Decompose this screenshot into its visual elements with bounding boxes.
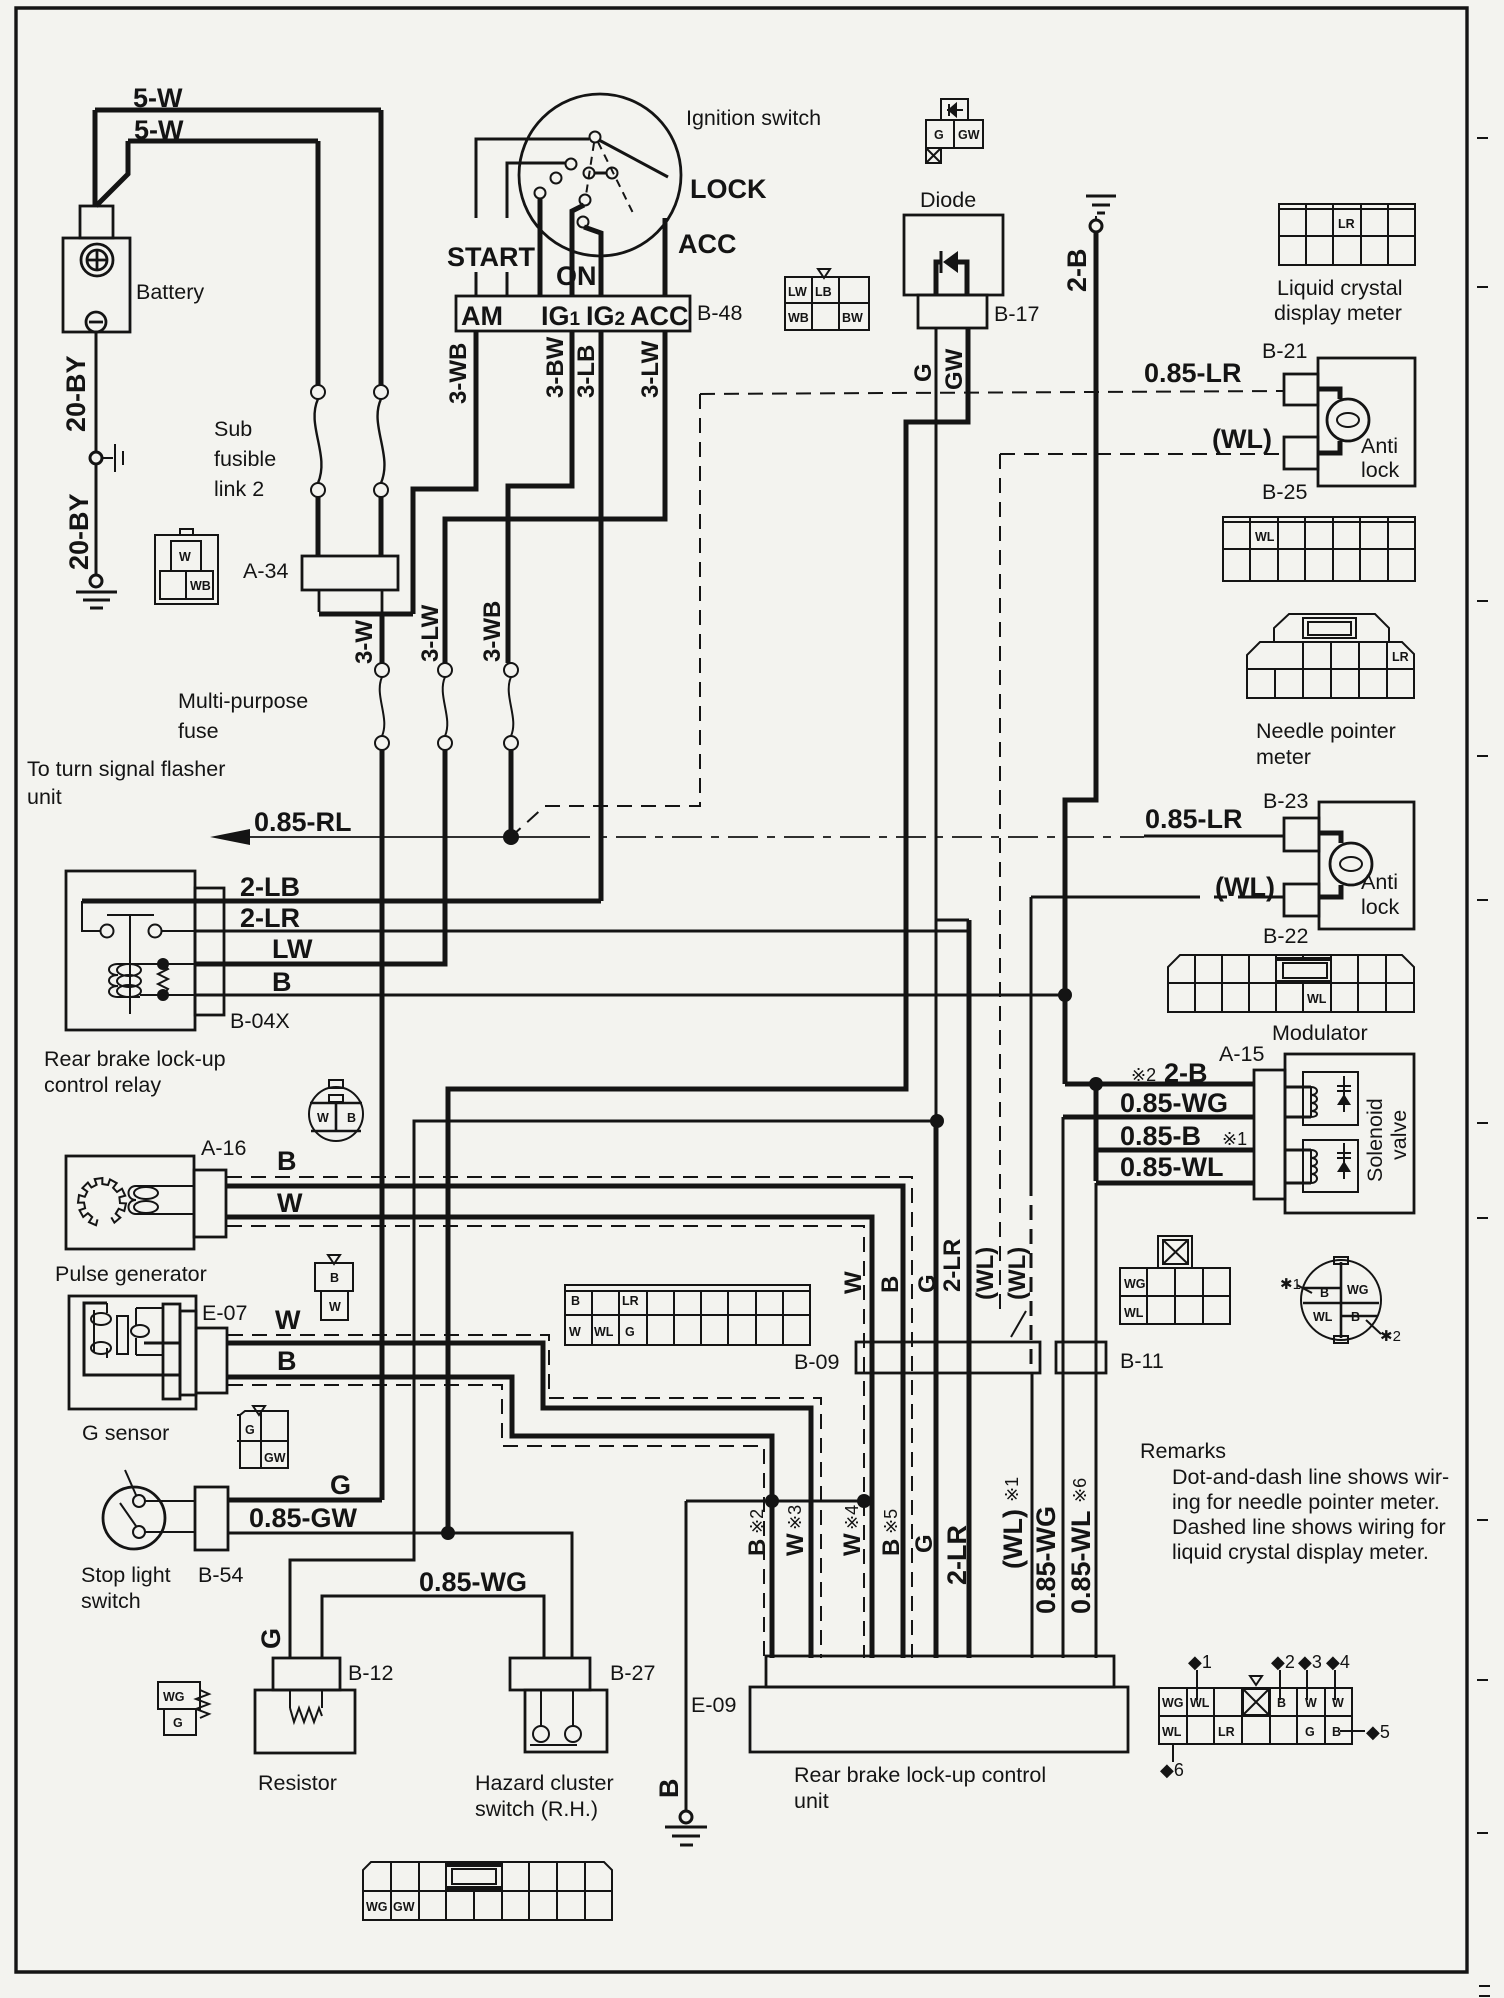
relay internal wiring <box>82 901 195 1014</box>
ground symbol battery <box>76 592 117 608</box>
wire 5-W lower <box>128 139 318 144</box>
svg-text:B-11: B-11 <box>1120 1349 1164 1373</box>
connector B-04X bar <box>195 888 224 1015</box>
svg-text:fuse: fuse <box>178 719 219 743</box>
svg-text:W: W <box>839 1533 866 1556</box>
svg-text:(WL): (WL) <box>998 1509 1028 1569</box>
svg-text:W: W <box>329 1300 341 1314</box>
wire 3-WB to junction <box>509 750 514 837</box>
svg-text:B: B <box>347 1111 356 1125</box>
svg-text:Rear brake lock-up: Rear brake lock-up <box>44 1047 226 1071</box>
wire 3-LW below B-48 <box>445 331 665 663</box>
svg-text:A-34: A-34 <box>243 559 288 583</box>
svg-text:Liquid crystal: Liquid crystal <box>1277 276 1402 300</box>
junction 2-B <box>1089 1077 1103 1091</box>
svg-text:display meter: display meter <box>1274 301 1402 325</box>
wire B G sensor dashed companion <box>228 1385 764 1658</box>
svg-text:0.85-GW: 0.85-GW <box>249 1503 358 1533</box>
hazard switch contacts <box>530 1690 577 1745</box>
connector E-07 bar <box>196 1328 227 1393</box>
connector grid B/LR/W/WL/G <box>565 1285 810 1345</box>
wire B pulse <box>226 1186 903 1658</box>
connector A-15 bar <box>1254 1070 1285 1199</box>
chassis ground tick <box>103 444 123 472</box>
svg-text:G: G <box>1305 1725 1315 1739</box>
wire W pulse <box>226 1217 872 1658</box>
wire ON lead <box>538 198 543 296</box>
svg-text:0.85-WL: 0.85-WL <box>1120 1152 1224 1182</box>
svg-text:B: B <box>1332 1725 1341 1739</box>
svg-text:ON: ON <box>556 261 597 291</box>
svg-text:Rear brake lock-up control: Rear brake lock-up control <box>794 1763 1046 1787</box>
svg-text:Stop light: Stop light <box>81 1563 171 1587</box>
svg-text:◆1: ◆1 <box>1188 1652 1212 1672</box>
wire 3-W <box>380 614 385 663</box>
svg-text:3-LW: 3-LW <box>637 340 664 398</box>
svg-text:link 2: link 2 <box>214 477 264 501</box>
wire GW from diode <box>448 328 968 1533</box>
wire 0.85-WG B-12 to B-27 <box>322 1596 544 1658</box>
svg-text:WB: WB <box>788 311 809 325</box>
svg-text:WL: WL <box>1162 1725 1182 1739</box>
svg-text:3-WB: 3-WB <box>479 601 506 662</box>
connector needle pointer meter <box>1247 614 1414 698</box>
svg-text:LW: LW <box>788 285 807 299</box>
svg-text:B: B <box>330 1271 339 1285</box>
connector B-11 bar <box>1056 1342 1106 1373</box>
wire 0.85-WG vertical <box>1062 1117 1065 1658</box>
svg-text:LOCK: LOCK <box>690 174 767 204</box>
solenoid coil 1 <box>1285 1072 1358 1125</box>
svg-text:2-B: 2-B <box>1062 248 1092 292</box>
svg-text:0.85-WG: 0.85-WG <box>1031 1506 1061 1614</box>
ignition rotor arm solid <box>594 140 668 177</box>
wire 3-WB below B-48 <box>413 331 476 614</box>
svg-text:W: W <box>1332 1696 1344 1710</box>
svg-text:liquid crystal display meter.: liquid crystal display meter. <box>1172 1540 1429 1564</box>
relay resistor leg <box>157 958 169 970</box>
wire ignition AM lead <box>476 139 589 218</box>
svg-text:3-W: 3-W <box>351 620 378 664</box>
diode symbol <box>936 262 967 295</box>
svg-text:3-LW: 3-LW <box>417 604 444 662</box>
connector joint 2-B <box>1090 220 1102 232</box>
right margin tick marks <box>1477 138 1490 1996</box>
svg-text:◆6: ◆6 <box>1160 1760 1184 1780</box>
solenoid coil 2 <box>1285 1140 1358 1192</box>
wire 2-B vertical <box>1065 232 1096 1084</box>
svg-text:0.85-WG: 0.85-WG <box>1120 1088 1228 1118</box>
wire 3-LB below B-48 <box>599 331 604 901</box>
connector grid bottom WG/GW <box>363 1862 612 1920</box>
junction B to 2-B <box>1058 988 1072 1002</box>
svg-text:WL: WL <box>1313 1310 1333 1324</box>
wire links to A-34 <box>318 497 381 556</box>
svg-text:WB: WB <box>190 579 211 593</box>
wire to fusible link right <box>379 110 384 385</box>
svg-text:fusible: fusible <box>214 447 276 471</box>
svg-text:WL: WL <box>1124 1306 1144 1320</box>
svg-text:WL: WL <box>1255 530 1275 544</box>
rear brake lock-up control relay box <box>66 871 195 1030</box>
svg-text:◆2: ◆2 <box>1271 1652 1295 1672</box>
svg-text:AM: AM <box>461 301 503 331</box>
wire 5-W upper <box>95 108 381 113</box>
svg-text:B: B <box>277 1346 297 1376</box>
svg-text:◆3: ◆3 <box>1298 1652 1322 1672</box>
svg-text:A-15: A-15 <box>1219 1042 1264 1066</box>
junction end dot <box>857 1494 871 1508</box>
wire 20-BY battery negative <box>95 332 98 453</box>
pointer tick WL <box>1011 1311 1026 1337</box>
connector pin B-25 <box>1284 437 1318 469</box>
svg-text:Anti: Anti <box>1361 870 1398 894</box>
wire GW branch jog <box>936 919 969 922</box>
battery B1 <box>63 206 130 332</box>
svg-text:B-21: B-21 <box>1262 339 1307 363</box>
svg-text:W: W <box>569 1325 581 1339</box>
svg-text:※5: ※5 <box>881 1509 901 1534</box>
fuse 3-WB <box>504 663 518 750</box>
pulse generator gear <box>78 1178 126 1225</box>
ignition switch housing circle <box>519 94 681 256</box>
svg-text:E-07: E-07 <box>202 1301 247 1325</box>
wire dashed WL vertical <box>999 454 1001 1310</box>
ignition switch contacts <box>535 132 618 228</box>
wire 3-W long vertical to stop light G <box>380 750 385 1500</box>
control unit box <box>750 1687 1128 1752</box>
connector icon LW/LB/WB/BW <box>785 269 869 330</box>
wire E-09 branch <box>686 1500 866 1503</box>
svg-text:ACC: ACC <box>678 229 737 259</box>
control unit connector bar <box>766 1656 1114 1687</box>
ground symbol 2-B top <box>1086 196 1116 213</box>
wire 0.85-WL vertical <box>1095 1183 1098 1658</box>
svg-text:B-09: B-09 <box>794 1350 839 1374</box>
svg-text:LR: LR <box>1392 650 1409 664</box>
wire G from diode <box>935 328 938 1121</box>
connector grid LCD meter <box>1279 204 1415 265</box>
wire 0.85-WL to A-15 <box>1096 1181 1254 1186</box>
wire 0.85-LR solid to B-23 <box>1144 835 1284 838</box>
svg-text:G: G <box>934 128 944 142</box>
stop light switch <box>103 1487 165 1549</box>
connector round W/B <box>309 1080 363 1141</box>
svg-text:◆5: ◆5 <box>1366 1722 1390 1742</box>
wire G stop light <box>228 1498 382 1503</box>
svg-text:2-LR: 2-LR <box>939 1239 966 1292</box>
connector B-27 <box>510 1658 590 1690</box>
svg-text:Multi-purpose: Multi-purpose <box>178 689 308 713</box>
svg-text:WG: WG <box>366 1900 388 1914</box>
wire 0.85-RL with arrow <box>228 836 560 838</box>
svg-text:0.85-LR: 0.85-LR <box>1145 804 1243 834</box>
svg-text:GW: GW <box>264 1451 286 1465</box>
bulb anti lock 1 <box>1318 389 1340 453</box>
fusible link 1 <box>311 385 325 497</box>
diode D1 box <box>904 215 1003 295</box>
svg-text:20-BY: 20-BY <box>61 355 91 432</box>
svg-text:GW: GW <box>958 128 980 142</box>
svg-text:B-22: B-22 <box>1263 924 1308 948</box>
wire B relay <box>195 994 1065 997</box>
wire IG2 lead <box>584 227 601 296</box>
svg-text:G: G <box>911 1534 938 1553</box>
wire battery positive lead <box>95 110 128 207</box>
wire ACC lead <box>663 218 668 296</box>
fusible link 2 <box>374 385 388 497</box>
junction E-09 to B*2 <box>765 1494 779 1508</box>
connector icon WG/G with resistor <box>158 1682 209 1735</box>
svg-text:WG: WG <box>1162 1696 1184 1710</box>
svg-text:✱2: ✱2 <box>1380 1328 1401 1345</box>
svg-text:5-W: 5-W <box>134 115 184 145</box>
svg-text:W: W <box>317 1111 329 1125</box>
svg-text:B-25: B-25 <box>1262 480 1307 504</box>
G sensor connector bars <box>163 1304 180 1399</box>
svg-text:(WL): (WL) <box>1004 1247 1031 1300</box>
svg-text:B: B <box>877 1276 904 1293</box>
svg-text:G: G <box>625 1325 635 1339</box>
connector A-16 bar <box>194 1170 226 1237</box>
connector grid modulator <box>1168 955 1414 1012</box>
wire dash-dot needle pointer meter line <box>560 836 1144 838</box>
svg-text:G: G <box>173 1716 183 1730</box>
svg-text:B: B <box>1320 1286 1329 1300</box>
svg-text:(WL): (WL) <box>1212 424 1272 454</box>
svg-text:IG2: IG2 <box>586 301 625 331</box>
svg-text:2-LR: 2-LR <box>240 903 300 933</box>
svg-text:To turn signal flasher: To turn signal flasher <box>27 757 225 781</box>
svg-text:※1: ※1 <box>1002 1477 1022 1502</box>
svg-text:G: G <box>330 1470 351 1500</box>
svg-text:※6: ※6 <box>1070 1478 1090 1503</box>
svg-text:LW: LW <box>272 934 313 964</box>
connector grid WG/WL with X box <box>1120 1236 1230 1324</box>
svg-text:B: B <box>654 1779 684 1799</box>
connector B-48 <box>456 296 690 331</box>
svg-text:Dot-and-dash line shows wir-: Dot-and-dash line shows wir- <box>1172 1465 1449 1489</box>
svg-text:G sensor: G sensor <box>82 1421 169 1445</box>
relay coil <box>109 964 140 997</box>
connector B-12 <box>273 1658 340 1690</box>
pulse generator coil <box>129 1186 195 1214</box>
wire 2-B to A-15 <box>1065 1082 1254 1087</box>
connector icon G/GW with diode <box>926 99 983 163</box>
hazard cluster switch box <box>525 1690 607 1752</box>
wire B pulse dashed companion <box>227 1177 912 1658</box>
svg-text:Hazard cluster: Hazard cluster <box>475 1771 614 1795</box>
bulb anti lock 2 <box>1319 833 1341 897</box>
wire 3-BW below B-48 <box>508 331 572 663</box>
svg-text:unit: unit <box>27 785 62 809</box>
wire 0.85-B to A-15 <box>1096 1148 1254 1153</box>
wire WL B-22 <box>1031 896 1284 899</box>
wire 20-BY lower <box>95 464 98 575</box>
svg-text:(WL): (WL) <box>972 1247 999 1300</box>
G sensor internals <box>84 1303 180 1375</box>
svg-text:W: W <box>179 550 191 564</box>
svg-text:switch: switch <box>81 1589 141 1613</box>
wire LW <box>195 750 445 964</box>
svg-text:GW: GW <box>941 348 968 390</box>
connector icon W/WB <box>155 529 218 604</box>
svg-text:3-WB: 3-WB <box>445 343 472 404</box>
svg-text:B-23: B-23 <box>1263 789 1308 813</box>
connector round 4-pin <box>1301 1257 1381 1343</box>
fuse 3-LW <box>438 663 452 750</box>
svg-text:W: W <box>840 1271 867 1294</box>
connector pin B-23 <box>1284 818 1319 851</box>
wire WL1 vertical <box>1030 897 1033 1181</box>
svg-text:B-17: B-17 <box>994 302 1039 326</box>
svg-text:2-LB: 2-LB <box>240 872 300 902</box>
svg-text:lock: lock <box>1361 458 1399 482</box>
svg-text:0.85-WL: 0.85-WL <box>1066 1510 1096 1614</box>
wire dashed LCD WL to B-25 <box>1000 453 1284 455</box>
svg-text:GW: GW <box>393 1900 415 1914</box>
wire G branch to B-12 <box>290 1121 937 1658</box>
wire A-34 bottom bar <box>319 612 413 617</box>
svg-text:Ignition switch: Ignition switch <box>686 106 821 130</box>
anti lock unit 2 box <box>1319 802 1414 929</box>
svg-text:IG1: IG1 <box>541 301 581 331</box>
svg-text:Needle pointer: Needle pointer <box>1256 719 1396 743</box>
svg-text:WL: WL <box>1307 992 1327 1006</box>
svg-text:W: W <box>275 1305 301 1335</box>
svg-text:A-16: A-16 <box>201 1136 246 1160</box>
svg-text:BW: BW <box>842 311 863 325</box>
connector icon B/W <box>315 1255 353 1320</box>
connector B-09 bar <box>856 1342 1040 1373</box>
svg-text:LB: LB <box>815 285 832 299</box>
svg-text:※1: ※1 <box>1222 1129 1247 1149</box>
connector A-34 <box>302 556 398 612</box>
resistor box <box>255 1690 355 1753</box>
svg-text:Modulator: Modulator <box>1272 1021 1368 1045</box>
wire W G sensor <box>227 1343 811 1658</box>
junction 0.85-GW GW <box>441 1526 455 1540</box>
ground symbol E-09 <box>665 1827 707 1845</box>
connector grid diamond pins <box>1159 1676 1352 1744</box>
svg-text:Diode: Diode <box>920 188 976 212</box>
svg-text:E-09: E-09 <box>691 1693 736 1717</box>
svg-text:Sub: Sub <box>214 417 252 441</box>
wire dashed LCD 0.85-LR drop <box>513 394 700 835</box>
svg-text:B: B <box>571 1294 580 1308</box>
svg-text:lock: lock <box>1361 895 1399 919</box>
wire B G sensor <box>227 1377 772 1658</box>
svg-text:B: B <box>272 967 292 997</box>
anti lock unit 1 box <box>1318 358 1415 486</box>
connector joint E-09 ground <box>680 1811 692 1823</box>
svg-text:0.85-B: 0.85-B <box>1120 1121 1201 1151</box>
svg-text:B: B <box>277 1146 297 1176</box>
connector pin B-22 <box>1284 884 1319 916</box>
svg-text:G: G <box>914 1274 941 1293</box>
svg-text:※4: ※4 <box>842 1505 862 1530</box>
svg-text:B-04X: B-04X <box>230 1009 290 1033</box>
wire dashed LCD 0.85-LR <box>700 391 1284 394</box>
wire W G sensor dashed companion <box>228 1335 821 1658</box>
wire 2-LB <box>82 899 601 904</box>
svg-text:5-W: 5-W <box>133 83 183 113</box>
G sensor box <box>69 1296 196 1409</box>
svg-text:0.85-LR: 0.85-LR <box>1144 358 1242 388</box>
connector B-54 <box>195 1487 228 1550</box>
svg-text:3-BW: 3-BW <box>542 336 569 398</box>
wire 2-LR down to B-09 <box>967 920 972 1658</box>
svg-text:WG: WG <box>1347 1283 1369 1297</box>
connector grid WL meter <box>1223 517 1415 581</box>
wire to fusible link left <box>316 141 321 385</box>
svg-text:Battery: Battery <box>136 280 204 304</box>
svg-text:G: G <box>245 1423 255 1437</box>
ignition rotor dashed positions <box>586 142 633 213</box>
svg-text:0.85-RL: 0.85-RL <box>254 807 352 837</box>
svg-text:LR: LR <box>1338 217 1355 231</box>
svg-text:switch (R.H.): switch (R.H.) <box>475 1797 598 1821</box>
junction 0.85-RL <box>503 829 519 845</box>
svg-text:LR: LR <box>622 1294 639 1308</box>
svg-text:Pulse generator: Pulse generator <box>55 1262 207 1286</box>
connector joint ground end <box>90 575 102 587</box>
svg-text:2-LR: 2-LR <box>942 1525 972 1585</box>
svg-text:meter: meter <box>1256 745 1311 769</box>
svg-text:Remarks: Remarks <box>1140 1439 1226 1463</box>
wire 0.85-WG to A-15 <box>1063 1115 1254 1120</box>
svg-text:G: G <box>256 1628 286 1649</box>
wire ignition second lead <box>507 163 566 218</box>
svg-text:control relay: control relay <box>44 1073 161 1097</box>
junction G diode branch <box>930 1114 944 1128</box>
svg-text:W: W <box>782 1533 809 1556</box>
svg-text:B-12: B-12 <box>348 1661 393 1685</box>
svg-text:B-27: B-27 <box>610 1661 655 1685</box>
connector pin B-21 <box>1284 374 1318 405</box>
wire 0.85-B vertical tap <box>1094 1084 1099 1181</box>
svg-text:Anti: Anti <box>1361 434 1398 458</box>
wire 2-LR <box>195 930 969 933</box>
svg-text:WL: WL <box>1190 1696 1210 1710</box>
svg-text:B-48: B-48 <box>697 301 742 325</box>
wire START stub <box>475 272 478 296</box>
wire E-09 ground lead <box>685 1501 688 1811</box>
wire 0.85-GW <box>228 1533 572 1658</box>
svg-text:B: B <box>1351 1310 1360 1324</box>
svg-text:0.85-WG: 0.85-WG <box>419 1567 527 1597</box>
svg-text:W: W <box>277 1188 303 1218</box>
svg-text:B: B <box>1277 1696 1286 1710</box>
svg-text:valve: valve <box>1387 1110 1411 1160</box>
svg-text:Dashed line shows wiring for: Dashed line shows wiring for <box>1172 1515 1446 1539</box>
connector B-17 <box>918 295 987 328</box>
svg-text:Resistor: Resistor <box>258 1771 337 1795</box>
resistor element <box>290 1690 322 1722</box>
wire IG1 lead <box>572 205 584 296</box>
connector icon G/GW small <box>237 1406 288 1468</box>
svg-text:※3: ※3 <box>785 1505 805 1530</box>
svg-text:3-LB: 3-LB <box>573 345 600 398</box>
svg-text:WG: WG <box>1124 1277 1146 1291</box>
svg-text:20-BY: 20-BY <box>64 493 94 570</box>
svg-text:◆4: ◆4 <box>1326 1652 1350 1672</box>
svg-text:G: G <box>910 363 937 382</box>
svg-text:LR: LR <box>1218 1725 1235 1739</box>
wire stub 2 <box>506 272 509 296</box>
connector joint battery ground <box>90 452 102 464</box>
svg-text:Solenoid: Solenoid <box>1363 1098 1387 1182</box>
